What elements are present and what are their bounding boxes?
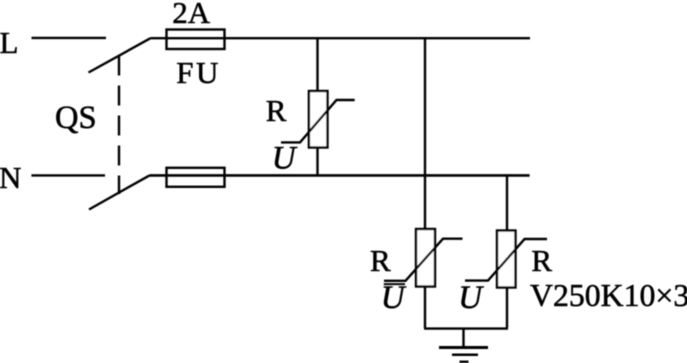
svg-text:2A: 2A: [172, 0, 211, 30]
svg-text:R: R: [370, 243, 391, 278]
svg-text:U: U: [272, 141, 298, 177]
svg-text:U: U: [458, 280, 484, 316]
svg-text:FU: FU: [176, 55, 221, 90]
svg-text:R: R: [266, 93, 287, 128]
svg-text:V250K10×3: V250K10×3: [530, 278, 687, 313]
svg-text:L: L: [0, 25, 18, 60]
svg-text:N: N: [0, 160, 21, 195]
svg-text:R: R: [531, 243, 552, 278]
svg-text:U: U: [381, 280, 407, 316]
svg-text:QS: QS: [55, 100, 97, 136]
